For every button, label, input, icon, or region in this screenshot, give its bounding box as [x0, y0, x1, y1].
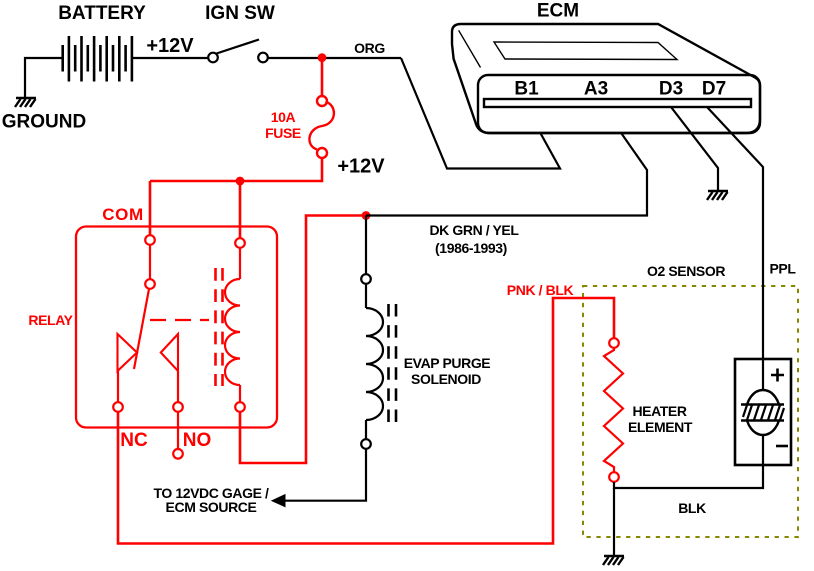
wire DK GRN / YEL	[366, 107, 647, 216]
svg-text:PPL: PPL	[769, 261, 796, 277]
relay switch arm	[134, 289, 149, 369]
relay COM terminal	[145, 235, 155, 289]
svg-text:SOLENOID: SOLENOID	[411, 371, 481, 387]
ECM outer case	[452, 24, 760, 133]
wire bus to COM	[149, 181, 152, 235]
solenoid core (dashed)	[389, 304, 397, 422]
svg-text:ECM: ECM	[537, 1, 579, 22]
plus sign	[771, 369, 784, 382]
relay coil L1	[225, 238, 245, 412]
O2 sensor cell	[735, 359, 791, 465]
ECM connector bar	[484, 99, 751, 107]
wire junction to solenoid	[365, 216, 367, 275]
svg-text:NC: NC	[120, 430, 148, 451]
svg-text:+12V: +12V	[146, 35, 194, 57]
hatched electrode band	[741, 405, 784, 421]
wire D7 to O2 sensor (PPL)	[707, 107, 763, 390]
ECM module	[452, 24, 760, 133]
heater element R1	[604, 338, 623, 482]
wire ORG to ECM pin B1	[401, 58, 560, 169]
relay coil core (dashed)	[216, 268, 223, 386]
svg-text:O2 SENSOR: O2 SENSOR	[647, 263, 725, 279]
wire solenoid to gage source	[285, 449, 367, 501]
svg-text:ELEMENT: ELEMENT	[628, 419, 693, 435]
arrow to 12VDC gage	[271, 494, 286, 508]
svg-text:ORG: ORG	[354, 40, 385, 56]
svg-text:DK GRN / YEL: DK GRN / YEL	[429, 222, 519, 238]
wire battery left	[25, 58, 62, 97]
svg-text:PNK / BLK: PNK / BLK	[507, 282, 574, 298]
svg-text:B1: B1	[514, 79, 539, 100]
relay K1 box	[76, 227, 277, 428]
svg-text:D7: D7	[702, 79, 726, 100]
node junction coil (red dot)	[236, 177, 245, 186]
ground battery	[15, 98, 36, 107]
svg-text:FUSE: FUSE	[265, 125, 301, 141]
ground O2 sensor	[603, 556, 624, 565]
node junction fuse (red dot)	[318, 53, 327, 62]
wire NC to heater (PNK/BLK)	[118, 298, 614, 544]
ECM left edge line	[459, 30, 481, 67]
ECM front face	[478, 75, 760, 133]
svg-text:NO: NO	[183, 430, 212, 451]
O2 sensor boundary (dashed box)	[583, 286, 798, 537]
relay NC terminal	[113, 371, 123, 412]
svg-text:IGN SW: IGN SW	[205, 3, 275, 24]
ground D3	[707, 191, 728, 200]
svg-text:A3: A3	[584, 79, 608, 100]
svg-text:GROUND: GROUND	[2, 112, 86, 133]
svg-text:BLK: BLK	[678, 500, 706, 516]
relay NO terminal	[173, 371, 183, 459]
ECM top recess	[494, 42, 677, 60]
svg-text:HEATER: HEATER	[632, 403, 686, 419]
wire D3 to ground	[671, 107, 718, 191]
wire relay coil to DK GRN junction	[240, 216, 366, 464]
wire junction to relay coil	[239, 181, 242, 238]
svg-text:D3: D3	[659, 79, 683, 100]
svg-text:+12V: +12V	[337, 156, 385, 178]
relay mechanical link (dashed)	[150, 319, 209, 321]
svg-text:COM: COM	[102, 205, 143, 224]
wire junction to fuse	[321, 58, 324, 96]
svg-text:ECM SOURCE: ECM SOURCE	[166, 499, 257, 515]
node junction solenoid (red dot)	[362, 211, 371, 220]
relay NO contact triangle	[161, 334, 178, 371]
svg-text:BATTERY: BATTERY	[58, 3, 146, 24]
solenoid EVAP purge coil	[361, 274, 383, 449]
wire battery to switch	[132, 57, 209, 59]
svg-text:10A: 10A	[271, 109, 296, 125]
wire fuse to relay bus	[150, 158, 322, 181]
wire heater to sensor ground (BLK)	[614, 465, 763, 488]
relay NC contact triangle	[118, 334, 138, 371]
svg-text:(1986-1993): (1986-1993)	[435, 240, 507, 256]
battery	[63, 36, 132, 82]
svg-text:EVAP PURGE: EVAP PURGE	[404, 355, 491, 371]
switch IGN SW	[208, 40, 268, 63]
fuse F1 10A	[309, 96, 334, 158]
minus sign	[776, 445, 788, 448]
svg-text:RELAY: RELAY	[28, 312, 73, 328]
wire switch to ORG	[268, 57, 401, 59]
